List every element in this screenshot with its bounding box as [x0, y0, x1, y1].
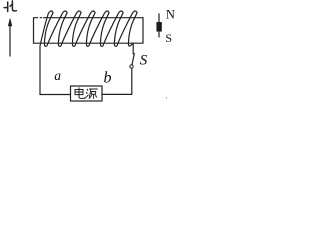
svg-text:b: b: [104, 69, 112, 86]
svg-text:N: N: [166, 7, 175, 21]
svg-text:S: S: [140, 52, 148, 68]
svg-text:S: S: [165, 31, 172, 45]
svg-text:a: a: [54, 68, 61, 83]
